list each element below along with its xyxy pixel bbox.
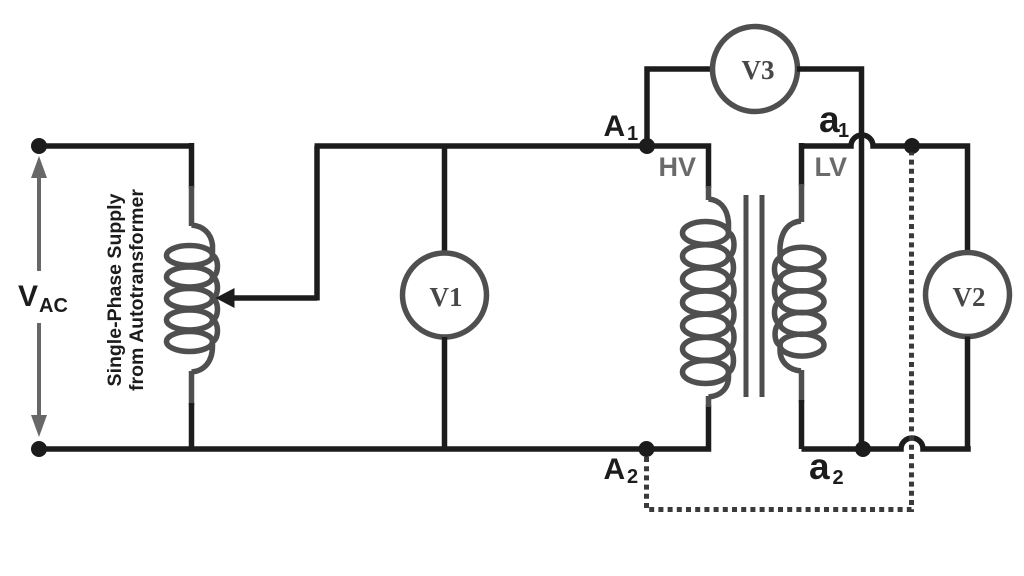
wiper arrow tap wire xyxy=(216,288,318,308)
wire bottom-right with hop over dotted xyxy=(802,438,969,449)
label a1 xyxy=(819,99,849,142)
node junction dotted top xyxy=(904,138,920,154)
wire tap to A1 horizontal xyxy=(315,143,648,149)
label A2 xyxy=(604,453,639,488)
svg-text:a: a xyxy=(819,99,840,140)
voltmeter V2 xyxy=(926,253,1010,337)
svg-text:Single-Phase Supply: Single-Phase Supply xyxy=(104,193,126,386)
HV winding stem gray xyxy=(706,186,712,200)
dotted polarity link A2 to a1 node xyxy=(647,153,912,510)
node A2 xyxy=(639,441,655,457)
svg-text:1: 1 xyxy=(838,120,849,142)
wire a1 to V2 with hop over V3 wire xyxy=(802,135,968,253)
svg-text:LV: LV xyxy=(815,152,848,182)
wire A1 up to V3 xyxy=(647,69,713,149)
svg-text:2: 2 xyxy=(833,467,844,489)
LV winding coil xyxy=(774,221,824,371)
wire tap riser xyxy=(314,146,320,301)
label Single-Phase Supply from Autotransformer xyxy=(104,189,148,391)
svg-text:V1: V1 xyxy=(430,282,463,312)
svg-text:V2: V2 xyxy=(953,282,986,312)
svg-text:A: A xyxy=(604,453,626,486)
HV winding coil xyxy=(683,199,734,397)
LV winding stem bottom xyxy=(799,370,805,402)
Vac double arrow xyxy=(31,156,47,437)
wire V1 top branch xyxy=(442,146,448,253)
wire top-left horizontal xyxy=(39,143,192,149)
LV winding stem top xyxy=(799,143,805,186)
label A1 xyxy=(604,110,639,145)
node source top xyxy=(31,138,47,154)
svg-text:AC: AC xyxy=(39,295,68,317)
label a2 xyxy=(809,446,844,489)
svg-text:A: A xyxy=(604,110,626,143)
voltmeter V3 xyxy=(713,27,798,112)
wire V2 bottom xyxy=(965,337,971,450)
voltmeter V1 xyxy=(403,253,487,337)
svg-text:HV: HV xyxy=(659,152,697,182)
svg-text:1: 1 xyxy=(627,123,638,145)
node source bottom xyxy=(31,441,47,457)
wire V1 bottom branch xyxy=(442,337,448,449)
transformer core xyxy=(746,195,762,397)
label VAC xyxy=(10,271,70,323)
svg-text:V: V xyxy=(18,280,38,313)
wire bottom-left horizontal to HV bottom xyxy=(39,405,709,449)
autotransformer stem bottom xyxy=(189,371,195,405)
HV winding stem bottom gray xyxy=(706,396,712,407)
svg-text:from Autotransformer: from Autotransformer xyxy=(126,189,148,391)
autotransformer stem top xyxy=(189,143,195,188)
autotransformer coil L1 xyxy=(167,225,218,372)
svg-text:V3: V3 xyxy=(742,55,775,85)
node A1 xyxy=(639,138,655,154)
wire V3 to a2 vertical xyxy=(797,69,862,449)
wire A1 to HV top xyxy=(647,146,709,188)
svg-text:2: 2 xyxy=(627,466,638,488)
node a2 xyxy=(855,441,871,457)
svg-text:a: a xyxy=(809,446,830,487)
